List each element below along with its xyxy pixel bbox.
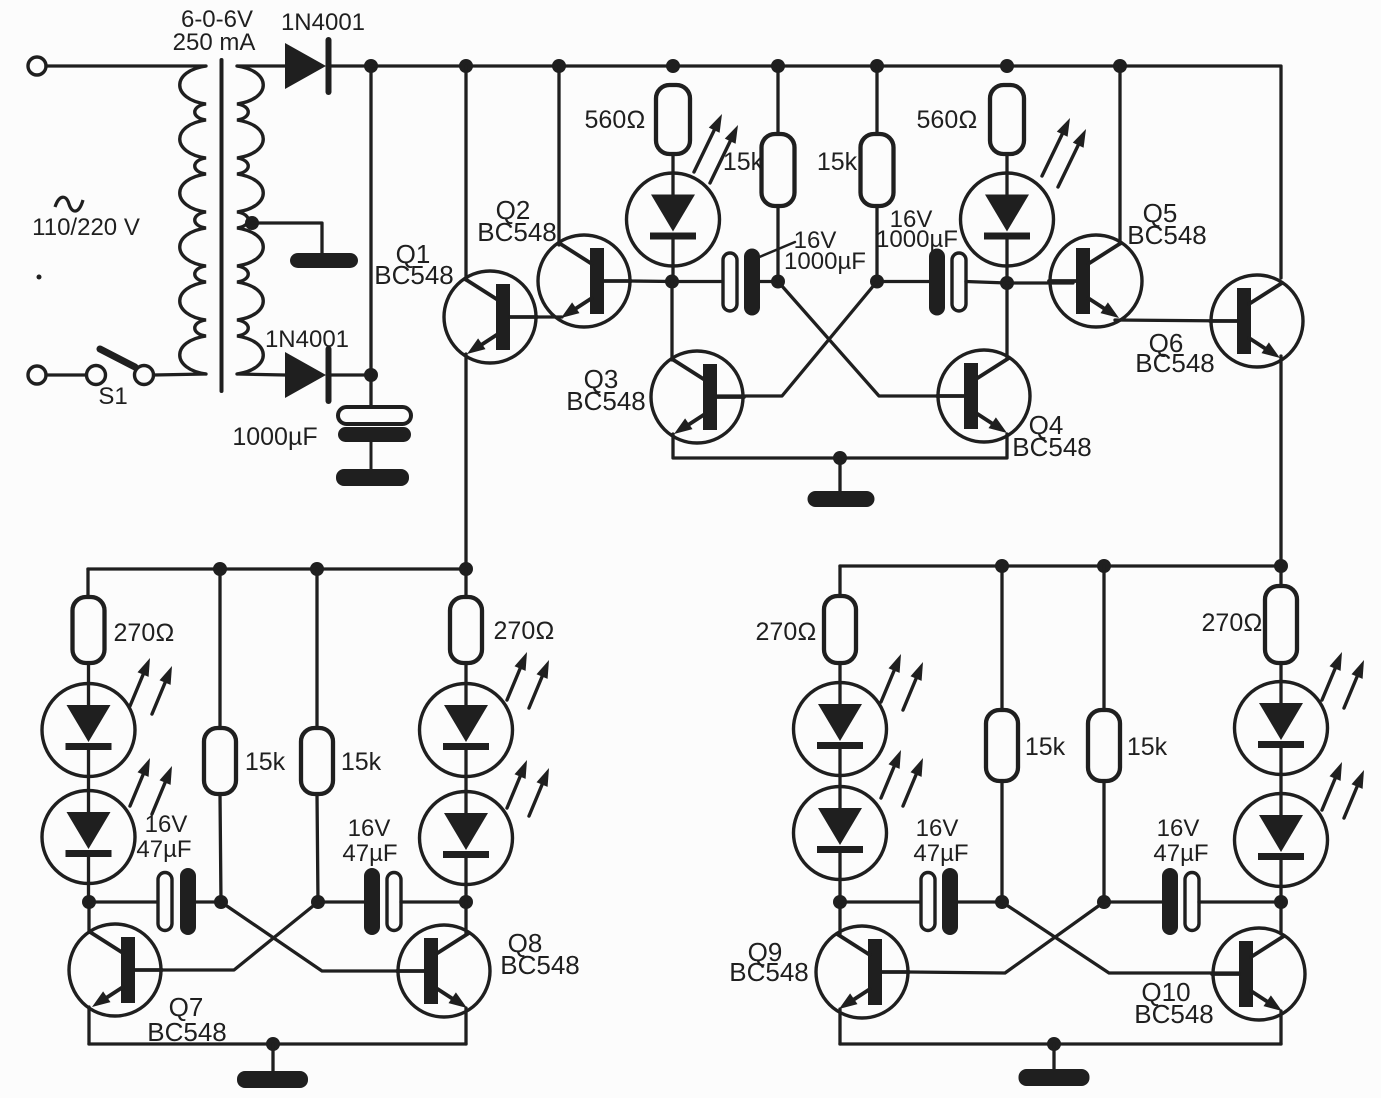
node: Q10 collector net [1274, 895, 1288, 909]
wire: center tap to ground [252, 223, 322, 253]
svg-text:47µF: 47µF [136, 836, 191, 863]
wire: LED D1 to LED D2 [1279, 774, 1282, 794]
wire: Q9 emitter to bottom rail [838, 1009, 841, 1044]
svg-text:560Ω: 560Ω [585, 106, 646, 134]
svg-text:S1: S1 [98, 383, 127, 410]
light arrows LED A2 [130, 775, 143, 806]
wire: Q8 emitter to bottom rail [464, 1008, 467, 1044]
wire: +V top rail [371, 66, 1281, 278]
node: rectifier output top [364, 59, 378, 73]
wire: cross-couple C to Q10 base [1002, 902, 1240, 973]
wire: Q1 base to Q2 emitter [537, 315, 562, 318]
wire: node to Q7 collector [87, 902, 90, 932]
node: rail at right column D [1274, 559, 1288, 573]
ground: left flasher [237, 1071, 308, 1088]
resistor 15k right (top section) [861, 134, 894, 206]
node: Q9 collector net [833, 895, 847, 909]
wire: Q2 base to node [631, 279, 672, 283]
ground: astable [808, 491, 875, 507]
wire: Q3 collector column [670, 282, 673, 361]
wire: cross-couple A to Q8 base [221, 902, 430, 971]
wire: node to Q8 collector [464, 902, 467, 934]
wire: 270R D to LED D1 [1279, 663, 1282, 682]
node: rail at 15k A [213, 562, 227, 576]
transistor Q2 BC548 [538, 235, 630, 327]
wire: LED A2 to node [87, 883, 90, 902]
light arrows LED B2 [507, 777, 520, 808]
svg-text:560Ω: 560Ω [917, 106, 978, 134]
wire: node to coupling cap C5 [318, 900, 364, 903]
wire: secondary top to diode D1 [237, 64, 285, 67]
svg-text:16V: 16V [145, 811, 188, 838]
label: pointer line C2 [757, 242, 795, 258]
wire: LED B1 to LED B2 [464, 776, 467, 791]
LED D2 [1235, 794, 1328, 887]
wire: left flasher bottom rail [89, 1042, 466, 1045]
transformer T1 primary winding [180, 66, 206, 374]
resistor 270R D [1265, 586, 1297, 663]
node: rail at right column [459, 562, 473, 576]
resistor 15k A [204, 728, 236, 794]
wire: ground stub (left flasher) [271, 1044, 274, 1072]
node: astable ground [833, 451, 847, 465]
svg-text:16V: 16V [916, 815, 959, 842]
node: left flasher ground [266, 1037, 280, 1051]
node: cross-couple C [995, 895, 1009, 909]
wire: 270R C to LED C1 [838, 663, 841, 683]
wire: ground stub (right flasher) [1052, 1044, 1055, 1070]
wire: AC top input to transformer primary [46, 64, 206, 67]
node: rail at 560R right [1000, 59, 1014, 73]
wire: LED right to node [1005, 266, 1008, 283]
LED indicator right (top section) [961, 173, 1054, 266]
wire: 15k D bottom [1102, 781, 1105, 902]
resistor 270R A [73, 597, 105, 663]
node: right flasher ground [1047, 1037, 1061, 1051]
resistor 15k B [301, 728, 333, 794]
light arrows LED left [694, 130, 714, 172]
LED C1 [794, 683, 887, 776]
node: transformer center tap [245, 216, 259, 230]
diode D1 1N4001 [285, 43, 326, 89]
wire: LED left to node [671, 266, 674, 282]
wire: 15k left top [776, 66, 779, 134]
svg-text:270Ω: 270Ω [756, 618, 817, 646]
wire: node to coupling cap C7 [1104, 900, 1162, 903]
light arrows LED C2 [881, 767, 894, 798]
svg-text:BC548: BC548 [1134, 999, 1214, 1029]
wire: Q5 collector column [1118, 66, 1121, 244]
wire: LED C2 to node [838, 879, 841, 902]
svg-text:270Ω: 270Ω [114, 619, 175, 647]
wire: Q3/Q4 emitters to ground [673, 434, 1007, 458]
LED indicator left (top section) [627, 173, 720, 266]
svg-text:1N4001: 1N4001 [265, 326, 349, 353]
transistor Q10 BC548 [1213, 928, 1305, 1020]
ground: center tap [290, 253, 358, 268]
wire: Q7 emitter to bottom rail [87, 1007, 90, 1044]
wire: right column from Q1 rail [464, 569, 467, 597]
node: rail at 15k right [870, 59, 884, 73]
wire: cross-couple left to Q4 base [778, 282, 962, 397]
LED A1 [42, 684, 135, 777]
wire: LED B2 to node [464, 884, 467, 902]
svg-text:15k: 15k [723, 148, 764, 176]
wire: cross-couple right to Q3 base [717, 282, 877, 397]
wire: right flasher bottom rail [840, 1042, 1281, 1045]
wire: Q5 emitter to Q6 base [1115, 320, 1237, 321]
wire: cross-couple B to Q7 base [162, 902, 318, 970]
wire: rectifier column [369, 66, 372, 407]
wire: 15k right bottom [875, 206, 878, 282]
wire: 270R A to LED A1 [87, 663, 90, 684]
LED D1 [1235, 682, 1328, 775]
wire: 15k D column [1102, 566, 1105, 710]
wire: 270R B to LED B1 [464, 663, 467, 684]
node: Q8 collector net [459, 895, 473, 909]
svg-text:15k: 15k [817, 148, 858, 176]
wire: D2 cathode to node [331, 373, 371, 376]
wire: AC bottom input to switch [46, 373, 87, 376]
node: rectifier output bottom [364, 368, 378, 382]
wire: Q4 collector column [1005, 283, 1008, 359]
svg-text:1000µF: 1000µF [784, 248, 866, 275]
wire: C4 to node [196, 900, 221, 903]
svg-text:110/220 V: 110/220 V [32, 214, 140, 241]
node: cross-couple A [214, 895, 228, 909]
transistor Q4 BC548 [938, 350, 1030, 442]
light arrows LED B1 [507, 669, 520, 700]
capacitor C6 16V 47uF [942, 868, 958, 935]
svg-text:BC548: BC548 [477, 217, 557, 247]
wire: LED D2 to node [1279, 886, 1282, 902]
svg-text:16V: 16V [348, 815, 391, 842]
wire: node to Q10 collector [1279, 902, 1282, 934]
wire: Q2 collector column [557, 66, 560, 245]
svg-text:BC548: BC548 [1127, 220, 1207, 250]
LED B2 [420, 792, 513, 885]
transistor Q3 BC548 [651, 351, 743, 443]
transistor Q1 BC548 [444, 271, 536, 363]
wire: D1 cathode to node [331, 64, 371, 67]
resistor 15k left (top section) [762, 134, 795, 206]
transistor Q7 BC548 [69, 924, 161, 1016]
svg-text:1000µF: 1000µF [876, 226, 958, 253]
svg-text:BC548: BC548 [1012, 432, 1092, 462]
svg-text:BC548: BC548 [729, 957, 809, 987]
wire: 15k B bottom [317, 794, 318, 902]
node: rail at 15k D [1097, 559, 1111, 573]
resistor 15k C [986, 710, 1018, 781]
node: cross-couple left [771, 275, 785, 289]
wire: C3 to node [966, 282, 1007, 284]
node: Q3 collector net [665, 275, 679, 289]
wire: node to coupling cap C3 [877, 280, 929, 283]
transistor Q9 BC548 [816, 926, 908, 1018]
wire: cross-couple D to Q9 base [909, 902, 1104, 973]
svg-text:47µF: 47µF [1153, 840, 1208, 867]
wire: LED C1 to LED C2 [838, 775, 841, 787]
wire: left flasher top rail [88, 567, 466, 570]
node: cross-couple B [311, 895, 325, 909]
node: rail at Q2 collector [552, 59, 566, 73]
light arrows LED D1 [1322, 669, 1335, 700]
svg-text:16V: 16V [1157, 815, 1200, 842]
capacitor C5 16V 47uF [364, 868, 380, 935]
wire: 560R left to LED [671, 154, 674, 173]
transistor Q5 BC548 [1050, 235, 1142, 327]
svg-text:15k: 15k [1127, 733, 1168, 761]
svg-text:250 mA: 250 mA [173, 29, 256, 56]
wire: Q10 emitter to bottom rail [1279, 1011, 1282, 1044]
svg-text:BC548: BC548 [374, 260, 454, 290]
node: rail at 15k B [310, 562, 324, 576]
svg-text:270Ω: 270Ω [1202, 609, 1263, 637]
node: rail at Q1 collector [459, 59, 473, 73]
wire: C6 to node [958, 900, 1002, 903]
node: rail at 560R left [666, 59, 680, 73]
resistor 560R left [656, 85, 690, 154]
capacitor C7 16V 47uF [1162, 868, 1178, 935]
stray mark [37, 275, 42, 280]
svg-text:47µF: 47µF [342, 840, 397, 867]
svg-text:47µF: 47µF [913, 840, 968, 867]
capacitor C3 16V 1000uF [929, 249, 945, 316]
wire: 15k A bottom [220, 794, 221, 902]
node: cross-couple D [1097, 895, 1111, 909]
wire: coupling cap C4 left lead [89, 900, 158, 903]
light arrows LED A1 [130, 675, 143, 706]
wire: secondary bottom to diode D2 [237, 374, 285, 375]
wire: 15k A column [218, 569, 221, 728]
wire: right flasher top rail [840, 564, 1281, 567]
diode D2 1N4001 [285, 352, 326, 398]
wire: C7 to node [1199, 900, 1281, 903]
wire: coupling cap C6 left lead [840, 900, 921, 903]
terminal: AC input bottom [28, 366, 46, 384]
capacitor C2 16V 1000uF [744, 249, 760, 316]
wire: node to Q9 collector [838, 902, 841, 934]
wire: 15k C column [1000, 566, 1003, 710]
svg-text:15k: 15k [341, 748, 382, 776]
svg-text:15k: 15k [245, 748, 286, 776]
node: rail at 15k C [995, 559, 1009, 573]
node: Q7 collector net [82, 895, 96, 909]
LED B1 [420, 684, 513, 777]
wire: 15k left bottom [776, 206, 779, 282]
transformer T1 core [220, 60, 224, 391]
transistor Q6 BC548 [1211, 275, 1303, 367]
wire: Q6 emitter down to right flasher rail [1279, 356, 1282, 566]
light arrows LED right [1042, 134, 1062, 176]
node: cross-couple right [870, 275, 884, 289]
wire: Q1 collector column [464, 66, 467, 280]
wire: node to coupling cap C2 [672, 280, 722, 283]
wire: C2 to node under 15k left [760, 280, 778, 283]
resistor 560R right [990, 85, 1024, 154]
resistor 270R C [824, 596, 856, 663]
resistor 15k D [1088, 710, 1120, 781]
svg-text:1N4001: 1N4001 [281, 9, 365, 36]
transistor Q8 BC548 [398, 925, 490, 1017]
svg-text:270Ω: 270Ω [494, 617, 555, 645]
wire: Q1 emitter down to left flasher rail [464, 354, 467, 569]
LED A2 [42, 791, 135, 884]
wire: rail corner to 270R A [86, 569, 89, 597]
terminal: AC input top [28, 57, 46, 75]
ground: filter capacitor [336, 469, 409, 486]
node: rail at 15k left [771, 59, 785, 73]
transformer T1 secondary winding [237, 66, 263, 374]
wire: 15k right top [875, 66, 878, 134]
wire: LED A1 to LED A2 [87, 776, 90, 791]
capacitor 1000uF filter [338, 407, 411, 424]
svg-text:BC548: BC548 [566, 386, 646, 416]
resistor 270R B [450, 597, 482, 663]
wire: ground stub (astable) [838, 458, 841, 492]
ground: right flasher [1019, 1069, 1090, 1086]
switch S1 [87, 366, 106, 385]
svg-text:15k: 15k [1025, 733, 1066, 761]
wire: rail corner to 270R C [838, 566, 841, 596]
wire: C5 to node [401, 900, 466, 903]
LED C2 [794, 787, 887, 880]
light arrows LED C1 [881, 671, 894, 702]
wire: 560R right to LED [1005, 154, 1008, 173]
node: Q4 collector net [1000, 276, 1014, 290]
svg-text:BC548: BC548 [500, 950, 580, 980]
label: AC sine symbol [55, 197, 83, 211]
capacitor C4 16V 47uF [180, 868, 196, 935]
wire: switch to transformer primary [154, 374, 207, 375]
wire: Q5 base from node [1007, 281, 1073, 284]
svg-text:1000µF: 1000µF [232, 423, 317, 451]
wire: 15k C bottom [1000, 781, 1003, 902]
svg-text:BC548: BC548 [1135, 348, 1215, 378]
wire: 15k B column [315, 569, 318, 728]
light arrows LED D2 [1322, 779, 1335, 810]
wire: right column from Q6 [1279, 566, 1282, 586]
node: rail at Q5 collector [1113, 59, 1127, 73]
